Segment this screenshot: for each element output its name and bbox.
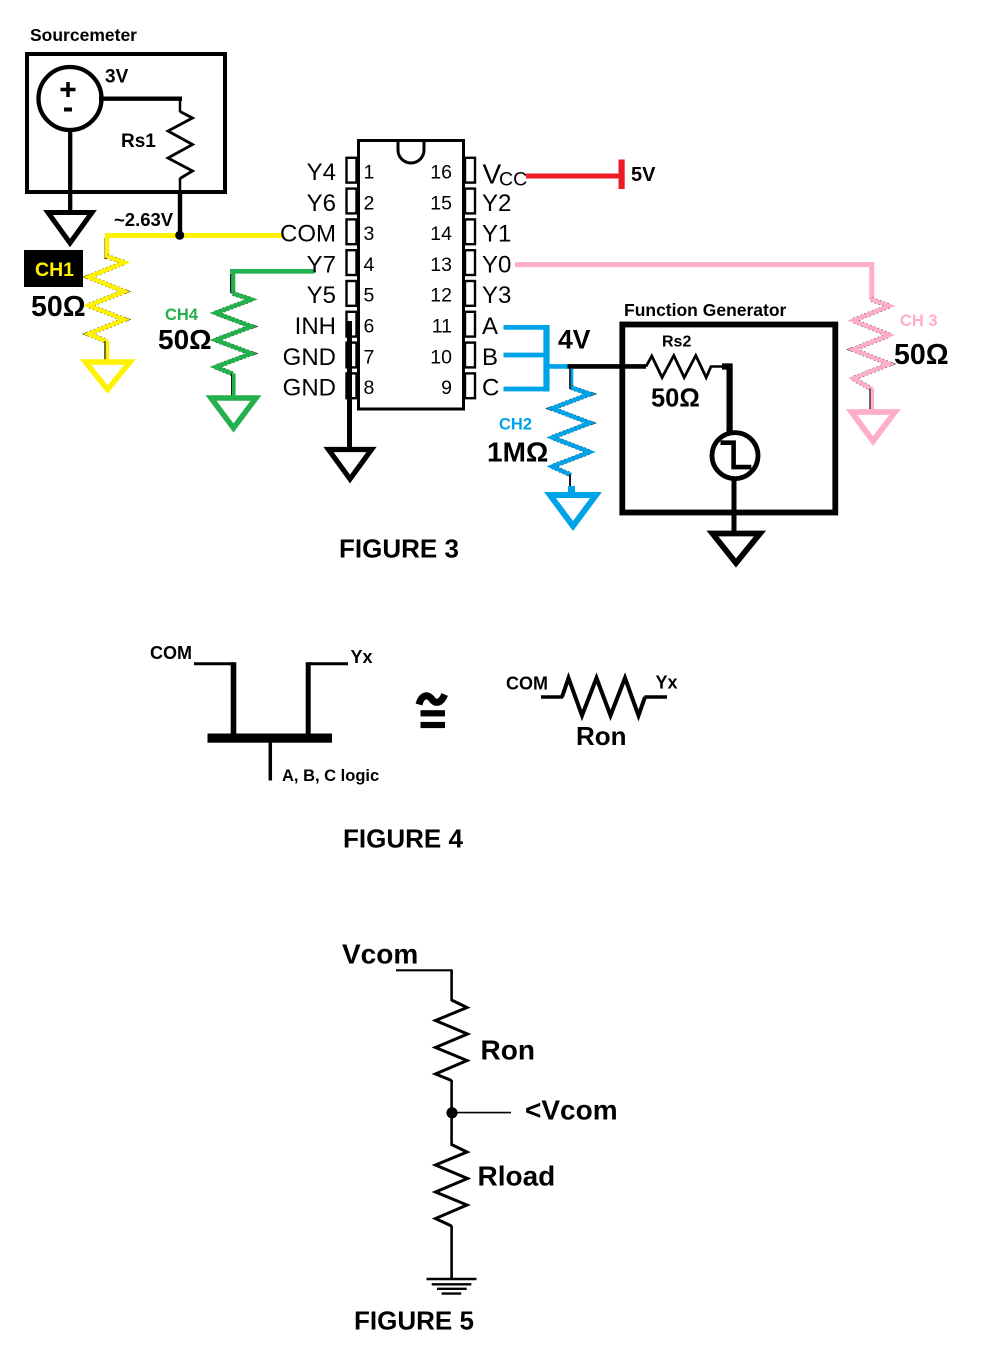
ground CH4 green — [211, 398, 256, 428]
function source circle — [712, 433, 758, 479]
wire blue stub to node — [544, 364, 570, 369]
wire source minus to ground — [68, 129, 72, 213]
resistor Ron fig4 — [562, 678, 645, 716]
svg-text:Rs2: Rs2 — [662, 334, 691, 351]
svg-text:2: 2 — [364, 192, 375, 214]
svg-text:FIGURE 5: FIGURE 5 — [354, 1306, 474, 1336]
wire Yx vertical — [306, 662, 311, 734]
wire CH1 bottom stub yellow — [106, 341, 110, 362]
svg-text:5V: 5V — [631, 164, 656, 186]
wire COM lead — [194, 662, 234, 665]
wire blue A — [504, 325, 550, 330]
svg-text:COM: COM — [280, 221, 336, 248]
svg-text:Y1: Y1 — [482, 221, 511, 248]
svg-text:13: 13 — [430, 254, 452, 276]
pin box 4 — [347, 250, 357, 275]
ground function generator — [713, 534, 761, 564]
wire COM vertical — [231, 662, 237, 734]
ground earth fig5 — [427, 1279, 477, 1294]
wire node to Rload — [450, 1115, 453, 1146]
pin box 3 — [347, 219, 357, 244]
svg-text:4: 4 — [364, 254, 375, 276]
wire blue C — [504, 387, 550, 392]
voltage source V1 circle — [39, 67, 102, 130]
wire gate stem — [269, 742, 273, 781]
wire black node to Rs2 — [568, 364, 647, 369]
sourcemeter box — [27, 54, 225, 192]
wire source to Rs1 — [99, 96, 182, 100]
node dot Vcom divider — [446, 1107, 457, 1118]
pin box 7 — [347, 343, 357, 368]
pin box 2 — [347, 189, 357, 214]
wire pink Y0 horizontal — [515, 262, 874, 267]
svg-text:Y6: Y6 — [307, 190, 336, 217]
wire Yx lead right — [645, 695, 668, 699]
ground CH1 yellow — [86, 362, 131, 390]
IC notch — [398, 140, 424, 163]
ground sourcemeter — [48, 213, 92, 244]
wire Rs2 to source — [722, 367, 730, 434]
wire blue B — [504, 353, 550, 358]
resistor CH2 1Mohm — [552, 388, 590, 476]
pin box 14 — [465, 219, 475, 244]
wire CH2 bottom stub blue — [568, 486, 575, 495]
wire Rs1 to COM node — [178, 194, 182, 237]
pin box 13 — [465, 250, 475, 275]
wire Vcom lead — [396, 969, 453, 971]
svg-text:CC: CC — [499, 169, 527, 191]
svg-text:FIGURE 4: FIGURE 4 — [343, 824, 463, 854]
svg-text:3V: 3V — [105, 67, 129, 88]
resistor Ron fig5 — [436, 1000, 468, 1081]
svg-text:8: 8 — [364, 377, 375, 399]
plus sign — [61, 82, 76, 97]
svg-text:Yx: Yx — [656, 673, 678, 693]
wire Vcom vertical — [450, 970, 453, 1001]
wire COM lead right — [541, 695, 563, 699]
svg-text:12: 12 — [430, 285, 452, 307]
svg-text:Sourcemeter: Sourcemeter — [30, 25, 137, 45]
approx equal symbol bar2 — [421, 722, 446, 728]
svg-text:FIGURE 3: FIGURE 3 — [339, 534, 459, 564]
svg-text:50Ω: 50Ω — [651, 385, 700, 413]
wire INH to ground — [347, 321, 352, 451]
svg-text:Y5: Y5 — [307, 282, 336, 309]
wire green vertical — [231, 270, 235, 294]
svg-text:INH: INH — [295, 313, 336, 340]
resistor Rload — [436, 1145, 468, 1227]
pin box 12 — [465, 281, 475, 306]
wire blue bus vertical — [543, 325, 549, 392]
svg-text:9: 9 — [441, 377, 452, 399]
pin box 6 — [347, 312, 357, 337]
5V supply bar red — [619, 160, 625, 190]
wire CH1 bottom stub black — [104, 341, 106, 361]
wire Rs1 bottom stub — [179, 178, 182, 196]
wire CH3 bottom stub black — [869, 389, 871, 412]
resistor CH3 50ohm — [853, 300, 890, 390]
svg-text:B: B — [482, 344, 498, 371]
svg-text:~2.63V: ~2.63V — [114, 209, 174, 230]
ground IC — [329, 450, 372, 480]
wire Rs2 right stub — [710, 365, 724, 368]
pin box 8 — [347, 373, 357, 398]
svg-text:Vcom: Vcom — [342, 939, 418, 970]
svg-text:Y2: Y2 — [482, 190, 511, 217]
minus sign — [64, 108, 72, 112]
svg-text:1MΩ: 1MΩ — [487, 437, 548, 468]
square wave glyph — [721, 443, 752, 467]
resistor CH1 50ohm outline — [89, 257, 125, 342]
svg-text:Rs1: Rs1 — [121, 131, 156, 152]
svg-text:CH4: CH4 — [165, 306, 199, 324]
svg-text:6: 6 — [364, 316, 375, 338]
wire green corner stub black — [230, 274, 232, 293]
svg-text:Y7: Y7 — [307, 251, 336, 278]
wire yellow corner stub black — [104, 238, 106, 259]
resistor Rs1 — [168, 112, 193, 179]
wire Ron to node — [450, 1080, 453, 1110]
pin box 1 — [347, 158, 357, 183]
svg-text:11: 11 — [432, 316, 452, 338]
node junction dot COM — [175, 231, 184, 240]
IC U1 body — [359, 141, 464, 410]
CH1 label box — [24, 250, 83, 287]
wire yellow COM horizontal — [106, 233, 282, 238]
svg-text:10: 10 — [430, 346, 452, 368]
wire yellow vertical — [105, 233, 109, 258]
svg-text:Ron: Ron — [576, 721, 627, 751]
wire CH4 bottom stub black — [231, 374, 233, 398]
svg-text:Yx: Yx — [351, 647, 373, 667]
svg-text:4V: 4V — [558, 325, 591, 355]
wire red VCC 5V — [526, 174, 619, 179]
wire Yx lead — [307, 662, 348, 665]
svg-text:<Vcom: <Vcom — [525, 1095, 618, 1126]
resistor Rs2 — [646, 356, 711, 378]
svg-text:14: 14 — [430, 223, 452, 245]
svg-text:Ron: Ron — [481, 1035, 535, 1066]
resistor CH4 50ohm outline — [216, 294, 252, 375]
svg-text:COM: COM — [506, 674, 548, 694]
svg-text:A, B, C logic: A, B, C logic — [282, 767, 379, 785]
svg-text:50Ω: 50Ω — [31, 291, 86, 323]
wire CH3 bottom stub pink — [870, 389, 874, 413]
wire green Y7 horizontal — [230, 269, 314, 274]
svg-text:Y3: Y3 — [482, 282, 511, 309]
svg-text:COM: COM — [150, 643, 192, 663]
pin box 16 — [465, 158, 475, 183]
wire CH2 bottom stub black — [569, 475, 571, 493]
svg-text:CH1: CH1 — [35, 259, 74, 281]
svg-text:Function Generator: Function Generator — [624, 300, 787, 320]
svg-text:3: 3 — [364, 223, 375, 245]
pin box 10 — [465, 343, 475, 368]
svg-text:CH2: CH2 — [499, 416, 532, 434]
wire CH4 bottom stub green — [232, 374, 236, 399]
svg-text:5: 5 — [364, 285, 375, 307]
svg-text:15: 15 — [430, 192, 452, 214]
svg-text:GND: GND — [283, 375, 336, 402]
wire node tap — [452, 1112, 511, 1114]
approx equal symbol bar1 — [421, 710, 446, 716]
resistor CH1 50ohm — [89, 257, 125, 342]
function generator box — [622, 325, 835, 513]
svg-text:50Ω: 50Ω — [158, 324, 212, 355]
ground CH2 blue — [550, 495, 596, 526]
svg-text:C: C — [482, 375, 499, 402]
pin box 15 — [465, 189, 475, 214]
wire CH2 top stub black — [569, 369, 571, 390]
svg-text:50Ω: 50Ω — [894, 339, 949, 371]
resistor CH3 50ohm outline — [853, 300, 890, 390]
approx equal symbol tilde — [419, 695, 445, 705]
pin box 11 — [465, 312, 475, 337]
svg-text:A: A — [482, 313, 498, 340]
wire CH2 top stub blue — [571, 369, 574, 388]
svg-text:GND: GND — [283, 344, 336, 371]
wire Rload to ground — [450, 1226, 453, 1280]
wire pink vertical — [869, 262, 874, 300]
ground CH3 pink — [852, 412, 896, 441]
svg-text:CH 3: CH 3 — [900, 312, 938, 330]
svg-text:1: 1 — [364, 162, 375, 184]
pin box 5 — [347, 281, 357, 306]
svg-text:Y4: Y4 — [307, 159, 336, 186]
svg-text:16: 16 — [430, 162, 452, 184]
wire source to ground — [732, 477, 737, 534]
svg-text:Y0: Y0 — [482, 251, 511, 278]
svg-text:7: 7 — [364, 346, 375, 368]
resistor CH4 50ohm — [216, 294, 252, 375]
resistor CH2 1Mohm outline — [552, 388, 590, 476]
pin box 9 — [465, 373, 475, 398]
wire Rs1 top stub — [179, 99, 182, 112]
svg-text:Rload: Rload — [478, 1161, 556, 1192]
switch gate bar — [208, 734, 333, 743]
